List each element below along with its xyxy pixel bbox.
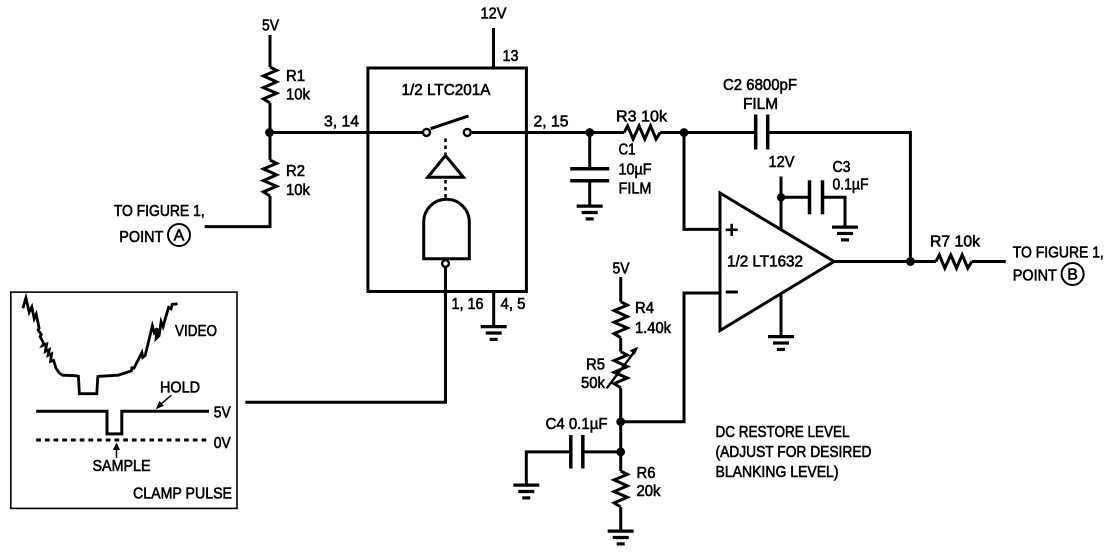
svg-text:TO FIGURE 1,: TO FIGURE 1, [114,203,205,220]
resistor R6 [614,471,627,507]
wire C3 to ground [824,197,845,225]
wire main input line to switch [270,131,423,134]
svg-text:10µF: 10µF [619,162,652,179]
wire C1 to ground [588,181,591,205]
wire C4 to node [585,450,621,453]
node C1 junction [585,128,594,137]
svg-text:C3: C3 [833,159,851,176]
svg-text:R2: R2 [286,163,305,180]
svg-text:2, 15: 2, 15 [534,114,569,131]
IC U1 box 1/2 LTC201A [368,68,527,292]
op-amp U2 1/2 LT1632 [720,193,834,331]
waveform inset box [11,292,237,508]
svg-text:5V: 5V [214,405,231,422]
wire R1 to R2 [269,103,272,160]
gate G1 body [424,199,470,258]
svg-text:POINT: POINT [119,229,163,246]
svg-text:1/2 LTC201A: 1/2 LTC201A [402,82,491,99]
arrow HOLD pointer [156,395,172,409]
switch S1 arm [431,116,469,129]
gate G1 output bubble [442,260,449,267]
svg-text:1.40k: 1.40k [635,320,672,337]
node output junction [906,257,915,266]
svg-text:3, 14: 3, 14 [324,114,359,131]
svg-text:0V: 0V [214,435,231,452]
wire node to R6 [619,452,622,471]
node C4 junction [616,448,625,457]
svg-text:1/2 LT1632: 1/2 LT1632 [727,254,803,271]
svg-text:R3 10k: R3 10k [616,109,668,126]
wire R3 to node [660,131,756,134]
node B terminal circle [1062,263,1084,285]
wire dashed switch control [444,139,447,155]
svg-text:R4: R4 [635,300,654,317]
ground (op-amp V-) [768,337,794,350]
switch S1 left contact [423,129,430,136]
ground (C3) [832,227,858,240]
wire R2 to point A [205,196,270,227]
ground (LTC201A pins 4,5) [481,327,507,340]
op-amp minus input marker [726,291,738,294]
node op-amp input junction [680,128,689,137]
wire 12V to op-amp V+ [780,177,783,241]
ground (C4) [513,485,539,498]
svg-text:HOLD: HOLD [160,380,200,397]
svg-text:10k: 10k [286,87,311,104]
arrow SAMPLE pointer [113,443,120,459]
svg-text:10k: 10k [286,182,311,199]
svg-text:R1: R1 [286,68,305,85]
clamp pulse waveform [36,411,209,434]
resistor R3 [624,126,660,139]
wire R6 to ground [619,507,622,530]
resistor R7 [936,255,972,268]
potentiometer R5 [614,352,627,388]
node main input junction [265,128,274,137]
svg-text:BLANKING LEVEL): BLANKING LEVEL) [716,464,839,481]
svg-text:R6: R6 [637,465,656,482]
node A terminal circle [168,224,190,246]
potentiometer R5 arrow [607,347,639,389]
wire 5V to R1 [269,35,272,67]
capacitor C1 [570,169,609,181]
svg-text:FILM: FILM [743,96,778,113]
svg-text:FILM: FILM [619,181,652,198]
wire R7 to point B [972,260,1006,263]
wire 5V to R4 [619,277,622,302]
wire inverting input [621,293,719,422]
node 12V bypass junction [777,193,785,201]
wire switch to output pin 2,15 [472,131,624,134]
wire 12V to box pin 13 [492,28,495,68]
resistor R1 [263,67,276,103]
svg-text:12V: 12V [481,5,507,22]
svg-text:5V: 5V [262,18,279,35]
svg-text:A: A [174,228,185,245]
wire op-amp output [834,260,936,263]
ground (C1) [577,206,603,219]
wire dashed buffer to gate [444,180,447,198]
wire C4 to ground [526,452,569,484]
resistor R2 [263,160,276,196]
svg-text:C4 0.1µF: C4 0.1µF [546,416,608,433]
video waveform trace [23,298,178,394]
svg-text:4, 5: 4, 5 [501,296,526,313]
label DC RESTORE LEVEL note [716,424,872,481]
switch S1 right contact [464,129,471,136]
svg-text:13: 13 [503,48,519,65]
wire gate output to clamp pulse source [245,267,445,402]
svg-text:0.1µF: 0.1µF [833,177,869,194]
svg-text:1, 16: 1, 16 [452,296,484,313]
resistor R4 [614,302,627,338]
wire op-amp V- to ground [780,290,783,335]
svg-text:R7 10k: R7 10k [930,234,981,251]
wire node to C4 node [619,422,622,452]
wire non-inverting input [684,133,719,230]
svg-text:B: B [1067,267,1078,284]
svg-text:R5: R5 [586,357,605,374]
svg-text:VIDEO: VIDEO [175,323,217,340]
op-amp plus input marker [726,224,738,236]
node DC restore junction [616,417,625,426]
svg-text:50k: 50k [581,375,606,392]
wire dashed 0V level [36,439,209,442]
svg-text:5V: 5V [613,260,630,277]
wire C2 to output node [768,133,911,262]
svg-text:12V: 12V [769,154,795,171]
svg-text:(ADJUST FOR DESIRED: (ADJUST FOR DESIRED [716,444,872,461]
wire R4 to R5 [619,338,622,352]
capacitor C2 [756,115,768,150]
driver buffer triangle [428,156,464,178]
svg-text:C2 6800pF: C2 6800pF [723,77,797,94]
ground (R6) [608,531,634,544]
capacitor C4 [571,435,583,469]
wire R5 to node [619,388,622,422]
svg-text:DC RESTORE LEVEL: DC RESTORE LEVEL [716,424,850,441]
wire node to C3 [781,196,808,199]
wire pins 4,5 to ground [492,292,495,326]
svg-text:C1: C1 [619,142,636,159]
capacitor C3 [810,180,823,214]
wire node to C1 [588,133,591,169]
svg-text:POINT: POINT [1013,268,1057,285]
svg-text:TO FIGURE 1,: TO FIGURE 1, [1013,245,1104,262]
svg-text:20k: 20k [637,483,662,500]
svg-text:SAMPLE: SAMPLE [93,458,151,475]
svg-text:CLAMP PULSE: CLAMP PULSE [133,486,232,503]
